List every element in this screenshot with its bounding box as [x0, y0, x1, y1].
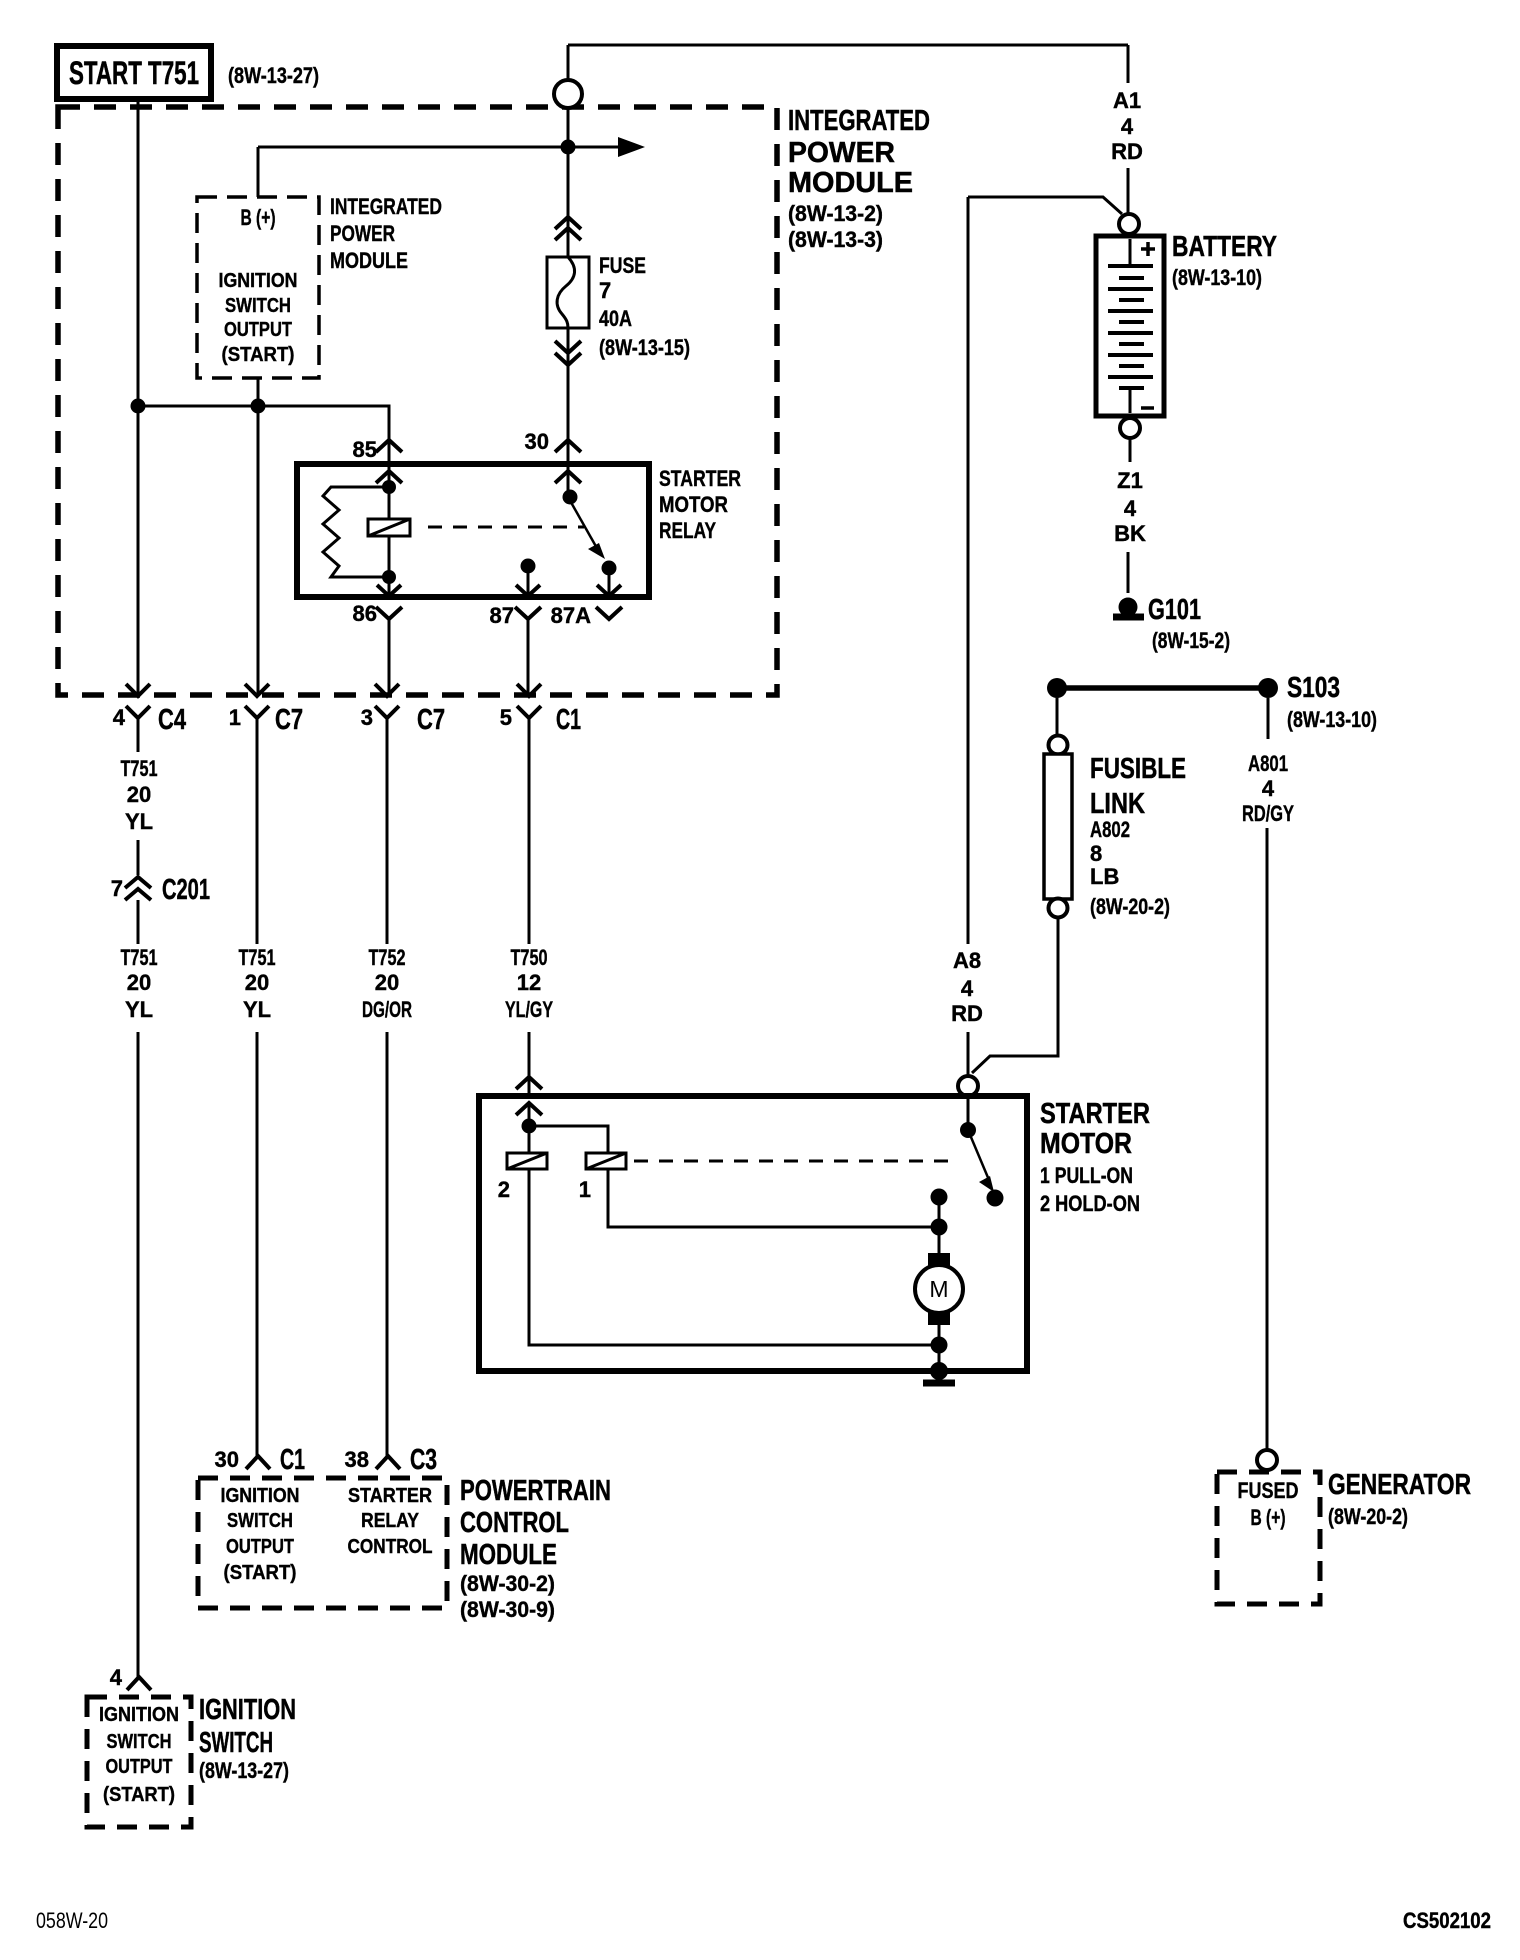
wire column1 between labels and C201	[137, 840, 140, 875]
ground starter case bar	[923, 1380, 955, 1387]
wire column3 run to PCM pin 38	[386, 1032, 389, 1457]
svg-text:(8W-13-27): (8W-13-27)	[199, 1758, 289, 1783]
pin FUSED B (+) label	[1238, 1478, 1299, 1530]
svg-text:20: 20	[127, 970, 151, 995]
svg-text:LINK: LINK	[1090, 788, 1145, 820]
label POWERTRAIN CONTROL MODULE refs	[460, 1475, 611, 1622]
wire T751 column 2 inside IPM	[257, 406, 260, 695]
svg-text:4: 4	[1124, 496, 1137, 521]
coil 2 hold-on winding box	[507, 1153, 547, 1169]
svg-text:A1: A1	[1113, 88, 1141, 113]
arrow feed to right (solid head)	[618, 137, 645, 157]
node case ground dot on box edge	[930, 1362, 948, 1380]
svg-text:POWER: POWER	[330, 221, 395, 246]
svg-text:RELAY: RELAY	[361, 1510, 420, 1532]
wire A801 upper stub	[1267, 698, 1270, 739]
battery B1 case	[1096, 236, 1164, 416]
svg-text:SWITCH: SWITCH	[225, 295, 291, 317]
resistor relay shunt zigzag	[323, 487, 389, 577]
label STARTER MOTOR 1 PULL-ON 2 HOLD-ON	[1040, 1098, 1150, 1216]
connector arrow pin 87 at box edge	[516, 585, 540, 596]
wire hold-on coil return	[529, 1169, 939, 1345]
svg-text:POWER: POWER	[788, 137, 895, 169]
svg-text:YL: YL	[125, 809, 153, 834]
label GENERATOR (8W-20-2)	[1328, 1469, 1471, 1529]
switch K1 movable contact arm with arrowhead	[568, 497, 605, 559]
svg-text:YL/GY: YL/GY	[505, 997, 553, 1022]
terminal ring fusible link top	[1049, 736, 1068, 755]
svg-text:(START): (START)	[224, 1562, 297, 1584]
svg-text:CONTROL: CONTROL	[348, 1536, 433, 1558]
label T751 20 YL column1 lower	[121, 945, 158, 1022]
connector inverted-Y ignition switch pin 4	[127, 1677, 151, 1690]
svg-text:38: 38	[345, 1447, 369, 1472]
module generator dashed box	[1217, 1472, 1320, 1604]
wire T751 column 1 inside IPM	[137, 406, 140, 695]
svg-text:RELAY: RELAY	[659, 518, 716, 543]
wire T751 from START box down to node A	[137, 99, 140, 406]
node coil1 return junction dot	[931, 1219, 948, 1236]
svg-text:058W-20: 058W-20	[36, 1908, 108, 1933]
wire A1 upper stub	[1127, 45, 1130, 83]
svg-text:RD: RD	[951, 1001, 983, 1026]
node S103 right dot	[1258, 678, 1278, 698]
svg-text:OUTPUT: OUTPUT	[226, 1536, 294, 1558]
label A801 4 RD/GY	[1242, 751, 1294, 826]
svg-text:T751: T751	[239, 945, 276, 970]
wire column1 below C201	[137, 900, 140, 944]
wire S103 to fusible link	[1056, 698, 1059, 736]
terminal ring starter B+ stud	[958, 1076, 978, 1096]
svg-text:1 PULL-ON: 1 PULL-ON	[1040, 1163, 1133, 1188]
svg-text:(8W-20-2): (8W-20-2)	[1090, 894, 1170, 919]
wire B(+) branch horizontal	[258, 146, 620, 149]
svg-text:BK: BK	[1114, 521, 1146, 546]
connector Y C7-3 below IPM	[375, 706, 399, 944]
label IGNITION SWITCH OUTPUT (START) inside B+ box	[219, 270, 298, 366]
node motor feed terminal dot	[931, 1189, 948, 1206]
coil K1 winding box	[368, 519, 410, 536]
label IGNITION SWITCH (8W-13-27) header	[199, 1694, 296, 1783]
svg-text:OUTPUT: OUTPUT	[224, 319, 292, 341]
connector arrow C4 exit at IPM edge	[126, 684, 150, 696]
svg-text:8: 8	[1090, 841, 1102, 866]
svg-text:FUSED: FUSED	[1238, 1478, 1299, 1503]
svg-text:7: 7	[599, 278, 611, 303]
connector chevron pin 86 below	[376, 607, 402, 619]
svg-text:(START): (START)	[103, 1784, 175, 1806]
connector inverted-Y PCM pin 38	[376, 1456, 400, 1469]
node B junction dot	[251, 399, 266, 414]
svg-text:(8W-20-2): (8W-20-2)	[1328, 1504, 1408, 1529]
label T752 20 DG/OR column3	[362, 945, 412, 1022]
connector arrow C7-3 exit at IPM edge	[375, 684, 399, 696]
svg-text:FUSIBLE: FUSIBLE	[1090, 753, 1186, 785]
wire branch to pull-in coil	[529, 1126, 608, 1153]
terminal ring on IPM top edge	[554, 80, 582, 108]
wire column4 run to starter motor	[528, 1032, 531, 1096]
svg-text:3: 3	[361, 705, 373, 730]
svg-text:20: 20	[245, 970, 269, 995]
label FUSIBLE LINK A802 8 LB (8W-20-2)	[1090, 753, 1186, 919]
svg-text:40A: 40A	[599, 306, 632, 331]
svg-text:LB: LB	[1090, 864, 1119, 889]
label STARTER MOTOR RELAY	[659, 466, 741, 543]
svg-text:FUSE: FUSE	[599, 253, 646, 278]
wire bus horizontal to relay coil	[138, 406, 389, 464]
svg-text:4: 4	[961, 976, 974, 1001]
label IGNITION SWITCH OUTPUT (START) inside ignition box	[99, 1704, 179, 1806]
svg-text:M: M	[929, 1276, 948, 1302]
svg-text:POWERTRAIN: POWERTRAIN	[460, 1475, 611, 1507]
svg-text:20: 20	[375, 970, 399, 995]
svg-text:(8W-13-10): (8W-13-10)	[1287, 707, 1377, 732]
wire entry to coil junction	[528, 1103, 531, 1153]
node START T751 title box	[57, 46, 211, 99]
terminal ring fusible link bottom	[1049, 899, 1068, 918]
svg-text:86: 86	[353, 601, 377, 626]
svg-text:A802: A802	[1090, 817, 1130, 842]
fusible link A802 body	[1044, 754, 1072, 899]
wire A8 tap from battery positive	[968, 197, 1122, 214]
label INTEGRATED POWER MODULE (small, beside B+ box)	[330, 194, 442, 273]
svg-text:5: 5	[500, 705, 512, 730]
wire pin 87 down to IPM edge	[527, 619, 530, 695]
fuse F7 body	[547, 257, 589, 328]
svg-text:20: 20	[127, 782, 151, 807]
svg-text:MOTOR: MOTOR	[1040, 1128, 1132, 1160]
svg-text:Z1: Z1	[1117, 468, 1143, 493]
svg-text:INTEGRATED: INTEGRATED	[788, 105, 930, 137]
node starter switch pivot dot	[960, 1122, 976, 1138]
svg-text:CONTROL: CONTROL	[460, 1507, 569, 1539]
svg-text:CS502102: CS502102	[1403, 1908, 1491, 1933]
svg-text:MOTOR: MOTOR	[659, 492, 728, 517]
connector chevrons fuse bottom	[555, 341, 581, 365]
svg-text:2: 2	[498, 1177, 510, 1202]
wire starter stud into switch	[967, 1096, 970, 1130]
wire A8 lower stub to starter stud	[967, 1032, 970, 1076]
wire pin 86 down to IPM edge	[388, 619, 391, 695]
wire fuse to relay pin 30	[567, 328, 570, 464]
connector arrow C7-1 exit at IPM edge	[245, 684, 269, 696]
svg-text:(START): (START)	[222, 344, 295, 366]
connector chevron pin 87A below	[596, 607, 622, 619]
module ignition switch dashed box	[87, 1697, 191, 1827]
connector chevron pin 87 below	[515, 607, 541, 619]
label A8 4 RD	[951, 948, 983, 1026]
node coil junction dot	[522, 1119, 537, 1134]
battery plates	[1108, 266, 1153, 388]
wire column2 run to PCM pin 30	[256, 1032, 259, 1457]
svg-text:85: 85	[353, 437, 377, 462]
svg-text:C7: C7	[417, 704, 445, 736]
wire A8 long vertical	[967, 197, 970, 944]
svg-text:C3: C3	[410, 1444, 437, 1476]
svg-text:7: 7	[111, 876, 123, 901]
svg-text:4: 4	[1262, 776, 1275, 801]
wire pin 87 exit	[527, 566, 530, 597]
connector arrow pin 87A at box edge	[597, 585, 621, 596]
svg-text:GENERATOR: GENERATOR	[1328, 1469, 1471, 1501]
wire Z1 upper stub	[1129, 438, 1132, 462]
svg-text:G101: G101	[1148, 594, 1201, 626]
svg-text:START T751: START T751	[69, 55, 199, 91]
node coil bottom dot	[382, 570, 396, 584]
wire pin 87A exit	[608, 568, 611, 597]
label A1 4 RD	[1111, 88, 1143, 164]
wire A801 long run to generator	[1266, 828, 1269, 1450]
svg-text:INTEGRATED: INTEGRATED	[330, 194, 442, 219]
svg-text:MODULE: MODULE	[788, 167, 913, 199]
wire solenoid actuation dashed link	[634, 1160, 958, 1163]
svg-text:SWITCH: SWITCH	[199, 1727, 273, 1759]
svg-text:SWITCH: SWITCH	[107, 1731, 172, 1753]
svg-text:STARTER: STARTER	[348, 1485, 432, 1507]
svg-text:IGNITION: IGNITION	[219, 270, 298, 292]
svg-text:2 HOLD-ON: 2 HOLD-ON	[1040, 1191, 1140, 1216]
svg-text:(8W-30-2): (8W-30-2)	[460, 1571, 555, 1596]
label INTEGRATED POWER MODULE (right)	[788, 105, 930, 252]
connector arrow C1-5 exit at IPM edge	[517, 684, 541, 696]
wire top feed horizontal to battery	[568, 44, 1128, 47]
terminal ring battery positive	[1119, 214, 1139, 234]
svg-text:A801: A801	[1248, 751, 1288, 776]
svg-text:T750: T750	[511, 945, 548, 970]
relay K1 starter motor relay box	[297, 464, 649, 597]
splice S103 bar	[1057, 685, 1268, 691]
wire from terminal ring down to junction	[567, 108, 570, 257]
node switch contact end dot	[987, 1190, 1004, 1207]
svg-text:(8W-13-2): (8W-13-2)	[788, 201, 883, 226]
node switch pivot dot	[563, 490, 578, 505]
svg-text:OUTPUT: OUTPUT	[106, 1756, 173, 1778]
starter motor M1 box	[479, 1096, 1027, 1371]
label BATTERY (8W-13-10)	[1172, 231, 1277, 290]
label + battery	[1141, 242, 1155, 256]
svg-text:87: 87	[490, 603, 514, 628]
connector chevrons pin 30	[555, 440, 581, 483]
svg-text:STARTER: STARTER	[659, 466, 741, 491]
node junction dot B(+) feed	[561, 140, 576, 155]
fuse F7 element wave	[557, 257, 575, 328]
motor M1 top terminal block	[928, 1253, 950, 1266]
svg-text:C1: C1	[280, 1444, 305, 1476]
connector inverted-Y PCM pin 30	[246, 1456, 270, 1469]
svg-text:87A: 87A	[551, 603, 591, 628]
module B(+) ignition switch output dashed box	[197, 197, 319, 378]
svg-text:B (+): B (+)	[241, 205, 276, 230]
wire B(+) drop into box	[257, 147, 260, 197]
motor M1 armature circle	[915, 1265, 963, 1313]
terminal ring generator stud	[1257, 1450, 1277, 1470]
module PCM dashed box	[198, 1478, 447, 1608]
module U-IPM integrated power module dashed box	[58, 107, 777, 695]
label Z1 4 BK	[1114, 468, 1146, 546]
connector arrow pin 86 at box edge	[377, 585, 401, 596]
label T750 12 YL/GY column4	[505, 945, 553, 1022]
svg-text:A8: A8	[953, 948, 981, 973]
svg-text:(8W-30-9): (8W-30-9)	[460, 1597, 555, 1622]
ground G101 symbol	[1113, 598, 1144, 618]
connector chevrons starter feed entry	[516, 1077, 542, 1115]
wire column1 long run to ignition switch	[137, 1032, 140, 1678]
svg-text:C4: C4	[158, 704, 186, 736]
svg-text:(8W-13-27): (8W-13-27)	[228, 63, 319, 88]
svg-text:(8W-13-3): (8W-13-3)	[788, 227, 883, 252]
wire pull-on coil return	[608, 1169, 939, 1227]
svg-text:YL: YL	[243, 997, 271, 1022]
svg-text:IGNITION: IGNITION	[221, 1485, 300, 1507]
svg-text:SWITCH: SWITCH	[227, 1510, 293, 1532]
svg-text:C1: C1	[556, 704, 581, 736]
node pin 87 contact dot	[521, 559, 536, 574]
connector chevrons fuse top	[555, 217, 581, 240]
connector Y C4 below IPM	[126, 706, 150, 752]
node pin 87A contact dot	[602, 561, 617, 576]
svg-text:(8W-13-10): (8W-13-10)	[1172, 265, 1262, 290]
svg-text:12: 12	[517, 970, 541, 995]
svg-text:C7: C7	[275, 704, 303, 736]
svg-text:S103: S103	[1287, 672, 1340, 704]
wire fusible link down to starter stud	[972, 917, 1058, 1073]
terminal ring battery negative	[1120, 418, 1140, 438]
connector chevrons pin 85	[376, 440, 402, 483]
svg-text:4: 4	[110, 1665, 123, 1690]
wire A1 lower stub to battery	[1127, 168, 1130, 214]
svg-text:B (+): B (+)	[1251, 1505, 1286, 1530]
svg-text:4: 4	[113, 705, 126, 730]
connector C201 chevrons	[125, 877, 151, 900]
svg-text:IGNITION: IGNITION	[99, 1704, 179, 1726]
svg-text:30: 30	[215, 1447, 239, 1472]
svg-text:(8W-15-2): (8W-15-2)	[1152, 628, 1230, 653]
label FUSE 7 40A (8W-13-15)	[599, 253, 690, 360]
node S103 left dot	[1047, 678, 1067, 698]
svg-text:STARTER: STARTER	[1040, 1098, 1150, 1130]
node A junction dot	[131, 399, 146, 414]
svg-text:T751: T751	[121, 945, 158, 970]
svg-text:IGNITION: IGNITION	[199, 1694, 296, 1726]
wire relay actuation dashed link	[428, 526, 584, 529]
switch M1 movable contact arm with arrowhead	[968, 1130, 994, 1192]
wire riser from IPM terminal circle to top feed	[567, 45, 570, 79]
motor M1 bottom terminal block	[928, 1312, 950, 1325]
label - battery	[1141, 406, 1154, 410]
wire pin 86 exit	[388, 577, 391, 597]
svg-text:BATTERY: BATTERY	[1172, 231, 1277, 263]
wire from B+ box bottom to node B	[257, 378, 260, 406]
svg-text:1: 1	[579, 1177, 591, 1202]
svg-text:RD/GY: RD/GY	[1242, 801, 1294, 826]
svg-text:4: 4	[1121, 114, 1134, 139]
label T751 20 YL column1 upper	[121, 756, 158, 834]
wire Z1 lower stub to ground	[1127, 552, 1130, 593]
wire coil feed pin 85 internal	[388, 464, 391, 577]
coil 1 pull-on winding box	[586, 1153, 626, 1169]
label STARTER RELAY CONTROL inside PCM	[348, 1485, 433, 1558]
battery positive stub	[1129, 239, 1132, 266]
node coil top dot	[382, 480, 396, 494]
svg-text:30: 30	[525, 429, 549, 454]
connector Y C7-1 below IPM	[245, 706, 269, 944]
wire motor feed vertical	[938, 1197, 941, 1253]
node motor return junction dot	[931, 1337, 948, 1354]
wire pin 30 internal to switch pivot	[567, 464, 570, 497]
svg-text:YL: YL	[125, 997, 153, 1022]
svg-text:T752: T752	[369, 945, 406, 970]
svg-text:C201: C201	[162, 874, 210, 906]
label T751 20 YL column2	[239, 945, 276, 1022]
battery negative stub	[1129, 388, 1132, 413]
svg-text:DG/OR: DG/OR	[362, 997, 412, 1022]
label IGNITION SWITCH OUTPUT (START) inside PCM	[221, 1485, 300, 1584]
svg-text:1: 1	[229, 705, 241, 730]
connector Y C1-5 below IPM	[517, 706, 541, 944]
svg-text:RD: RD	[1111, 139, 1143, 164]
svg-text:T751: T751	[121, 756, 158, 781]
svg-text:MODULE: MODULE	[460, 1539, 557, 1571]
svg-text:(8W-13-15): (8W-13-15)	[599, 335, 690, 360]
wire motor ground vertical	[938, 1325, 941, 1371]
svg-text:MODULE: MODULE	[330, 248, 408, 273]
